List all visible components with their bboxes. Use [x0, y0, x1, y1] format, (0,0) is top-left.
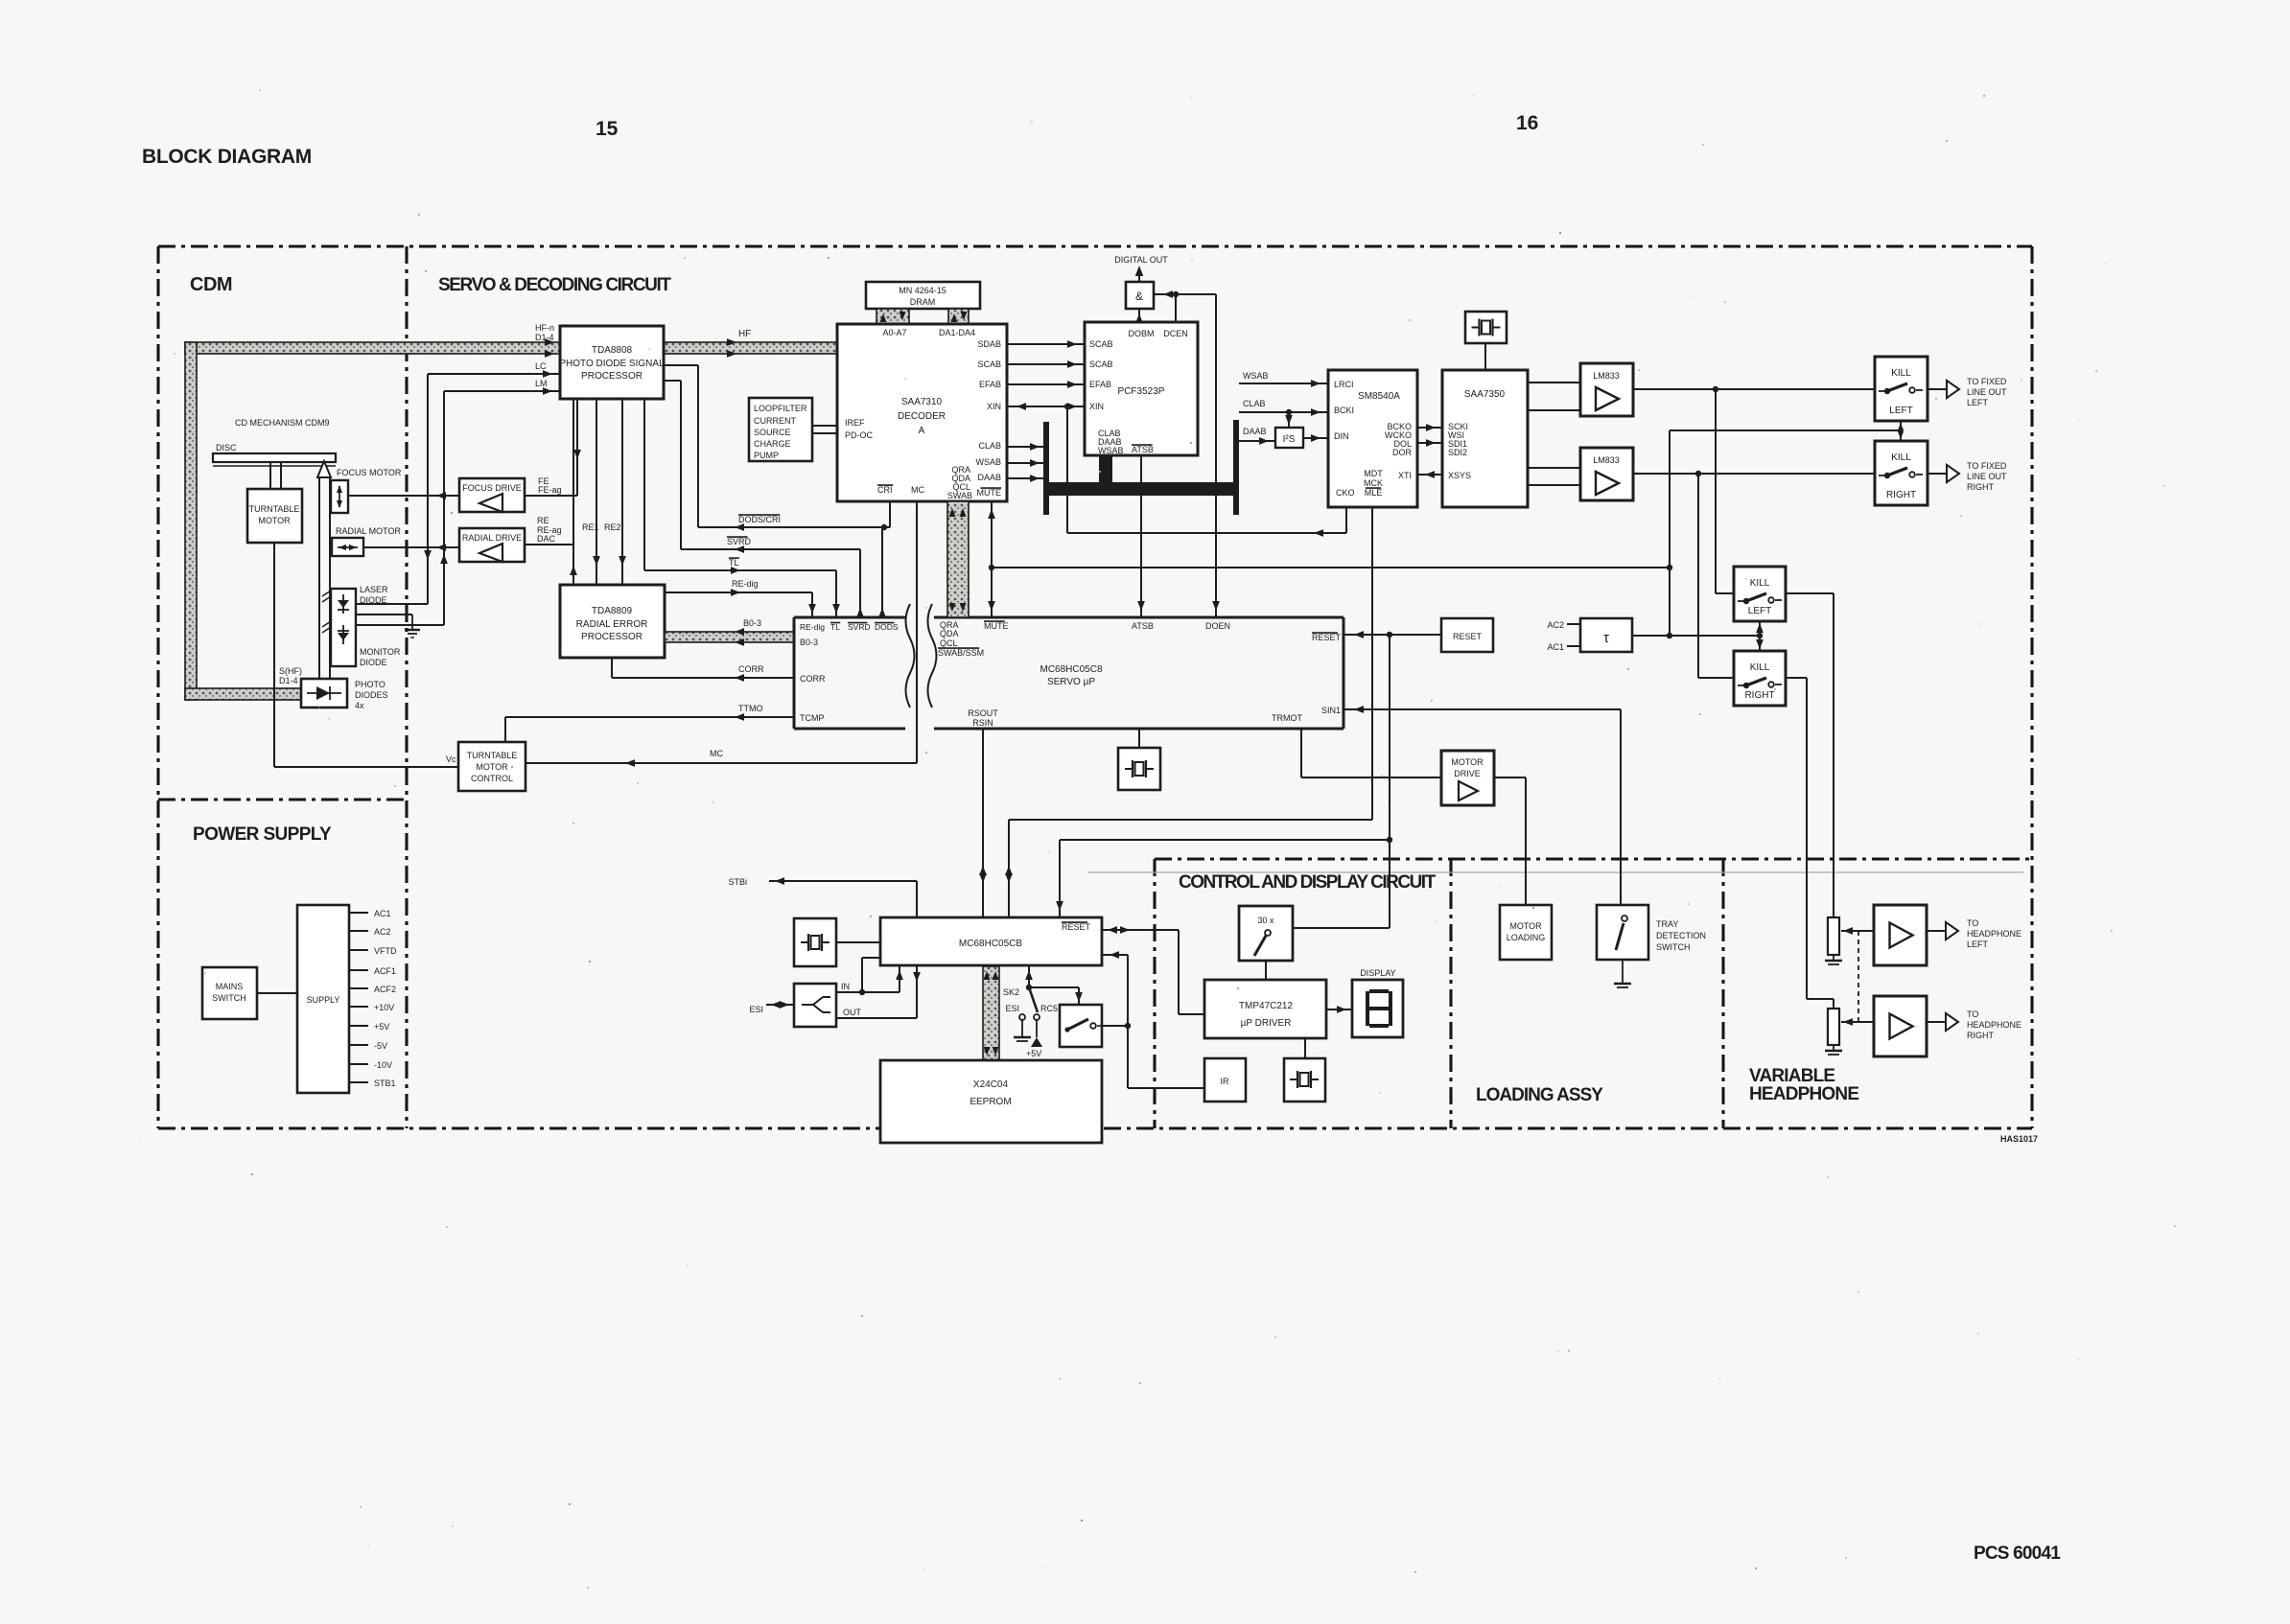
- svg-text:TL: TL: [729, 558, 739, 568]
- svg-text:DOBM: DOBM: [1129, 329, 1155, 338]
- svg-text:DETECTION: DETECTION: [1656, 931, 1706, 940]
- svg-text:µP DRIVER: µP DRIVER: [1241, 1018, 1292, 1029]
- svg-text:PROCESSOR: PROCESSOR: [581, 371, 643, 382]
- svg-text:-10V: -10V: [374, 1060, 392, 1070]
- svg-text:DODS: DODS: [875, 622, 899, 632]
- svg-text:STBi: STBi: [728, 877, 747, 887]
- svg-text:DODS/CRI: DODS/CRI: [738, 515, 781, 524]
- svg-text:TCMP: TCMP: [800, 713, 825, 723]
- svg-text:RE1: RE1: [582, 522, 599, 532]
- svg-text:LASER: LASER: [360, 585, 388, 594]
- svg-text:SERVO µP: SERVO µP: [1047, 677, 1095, 687]
- svg-text:RC5: RC5: [1040, 1004, 1058, 1013]
- svg-text:RADIAL ERROR: RADIAL ERROR: [576, 619, 648, 630]
- svg-text:SWITCH: SWITCH: [212, 993, 246, 1003]
- svg-text:LOADING ASSY: LOADING ASSY: [1476, 1085, 1603, 1105]
- svg-text:LM: LM: [535, 379, 548, 388]
- svg-text:DAAB: DAAB: [977, 473, 1001, 482]
- svg-text:HF: HF: [738, 329, 751, 339]
- svg-text:HEADPHONE: HEADPHONE: [1749, 1084, 1858, 1104]
- svg-text:RSIN: RSIN: [972, 718, 993, 728]
- svg-text:TO FIXED: TO FIXED: [1967, 461, 2007, 471]
- svg-text:POWER SUPPLY: POWER SUPPLY: [193, 824, 332, 845]
- svg-text:TL: TL: [830, 622, 840, 632]
- svg-text:TDA8809: TDA8809: [592, 606, 633, 616]
- svg-text:MOTOR: MOTOR: [1451, 757, 1484, 767]
- svg-text:DRIVE: DRIVE: [1454, 769, 1481, 778]
- svg-text:CDM: CDM: [190, 274, 232, 295]
- svg-text:+5V: +5V: [1026, 1049, 1041, 1058]
- svg-text:DECODER: DECODER: [898, 411, 946, 422]
- svg-text:MOTOR: MOTOR: [476, 762, 508, 772]
- svg-text:D1-4: D1-4: [279, 676, 298, 685]
- svg-text:SCAB: SCAB: [1089, 360, 1113, 369]
- svg-text:PCS 60041: PCS 60041: [1974, 1543, 2061, 1564]
- svg-text:I²S: I²S: [1283, 434, 1296, 445]
- svg-text:SOURCE: SOURCE: [754, 428, 791, 437]
- svg-text:SDAB: SDAB: [977, 339, 1001, 349]
- svg-text:LRCI: LRCI: [1334, 380, 1354, 389]
- svg-text:HEADPHONE: HEADPHONE: [1967, 1020, 2021, 1030]
- svg-text:CORR: CORR: [738, 664, 764, 674]
- svg-text:FOCUS MOTOR: FOCUS MOTOR: [337, 468, 402, 477]
- svg-text:FE-ag: FE-ag: [538, 485, 562, 495]
- svg-text:HAS1017: HAS1017: [2000, 1134, 2038, 1144]
- svg-text:LOADING: LOADING: [1507, 933, 1546, 942]
- svg-text:LEFT: LEFT: [1967, 940, 1989, 949]
- svg-text:RESET: RESET: [1062, 922, 1091, 932]
- svg-text:SCAB: SCAB: [977, 360, 1001, 369]
- svg-text:MC: MC: [911, 485, 924, 495]
- svg-text:RE-dig: RE-dig: [732, 579, 759, 589]
- svg-text:PCF3523P: PCF3523P: [1118, 386, 1165, 397]
- svg-text:SVRD: SVRD: [727, 537, 752, 546]
- svg-text:RIGHT: RIGHT: [1886, 490, 1916, 500]
- svg-text:XSYS: XSYS: [1448, 471, 1471, 480]
- svg-text:EFAB: EFAB: [1089, 380, 1111, 389]
- svg-text:HEADPHONE: HEADPHONE: [1967, 929, 2021, 939]
- svg-text:EFAB: EFAB: [979, 380, 1001, 389]
- svg-text:CONTROL: CONTROL: [471, 774, 513, 783]
- svg-text:SAA7350: SAA7350: [1464, 389, 1506, 400]
- svg-text:XIN: XIN: [1089, 402, 1104, 411]
- svg-text:CORR: CORR: [800, 674, 826, 684]
- svg-text:RIGHT: RIGHT: [1967, 482, 1995, 492]
- svg-text:VARIABLE: VARIABLE: [1749, 1066, 1834, 1086]
- svg-text:RE-dig: RE-dig: [800, 622, 825, 632]
- svg-text:XIN: XIN: [987, 402, 1001, 411]
- svg-text:DISPLAY: DISPLAY: [1360, 968, 1395, 978]
- svg-text:16: 16: [1516, 112, 1538, 134]
- svg-text:SIN1: SIN1: [1321, 706, 1341, 715]
- svg-text:CURRENT: CURRENT: [754, 416, 797, 426]
- svg-text:LINE OUT: LINE OUT: [1967, 387, 2007, 397]
- svg-text:DIODES: DIODES: [355, 690, 388, 700]
- svg-text:MAINS: MAINS: [216, 982, 244, 991]
- svg-text:B0-3: B0-3: [800, 638, 818, 647]
- svg-text:A0-A7: A0-A7: [882, 328, 906, 337]
- svg-text:ACF2: ACF2: [374, 985, 396, 994]
- svg-text:KILL: KILL: [1891, 368, 1911, 379]
- svg-text:MOTOR: MOTOR: [258, 516, 291, 525]
- svg-text:LM833: LM833: [1593, 371, 1620, 381]
- svg-text:TO: TO: [1967, 918, 1978, 928]
- svg-text:IREF: IREF: [845, 418, 865, 428]
- svg-text:TTMO: TTMO: [738, 704, 763, 713]
- svg-text:ACF1: ACF1: [374, 966, 396, 976]
- svg-text:ESI: ESI: [1005, 1004, 1019, 1013]
- svg-text:AC2: AC2: [374, 927, 391, 937]
- svg-text:RE2: RE2: [604, 522, 621, 532]
- svg-text:TDA8808: TDA8808: [592, 345, 633, 356]
- svg-text:PHOTO: PHOTO: [355, 680, 386, 689]
- svg-text:MC68HC05CB: MC68HC05CB: [959, 939, 1022, 949]
- svg-text:DIODE: DIODE: [360, 658, 387, 667]
- svg-text:SAA7310: SAA7310: [901, 397, 943, 407]
- svg-text:KILL: KILL: [1750, 578, 1770, 589]
- svg-text:DIGITAL OUT: DIGITAL OUT: [1114, 255, 1168, 265]
- svg-text:TO FIXED: TO FIXED: [1967, 377, 2007, 386]
- svg-text:RADIAL DRIVE: RADIAL DRIVE: [462, 533, 522, 543]
- svg-text:WSAB: WSAB: [1098, 446, 1124, 455]
- svg-text:LEFT: LEFT: [1889, 406, 1912, 416]
- svg-text:SK2: SK2: [1003, 987, 1019, 997]
- svg-text:RESET: RESET: [1453, 632, 1483, 641]
- svg-text:RIGHT: RIGHT: [1967, 1031, 1995, 1040]
- svg-text:AC2: AC2: [1547, 620, 1564, 630]
- svg-text:SM8540A: SM8540A: [1358, 391, 1400, 402]
- svg-text:WSAB: WSAB: [975, 457, 1001, 467]
- svg-text:XTI: XTI: [1398, 471, 1412, 480]
- svg-text:RSOUT: RSOUT: [968, 708, 998, 718]
- svg-text:LM833: LM833: [1593, 455, 1620, 465]
- svg-text:LINE OUT: LINE OUT: [1967, 472, 2007, 481]
- svg-text:DAAB: DAAB: [1243, 427, 1267, 436]
- svg-text:MCK: MCK: [1364, 478, 1383, 488]
- svg-text:VFTD: VFTD: [374, 946, 397, 956]
- svg-text:D1-4: D1-4: [535, 333, 554, 342]
- svg-text:RESET: RESET: [1312, 633, 1342, 642]
- svg-text:CLAB: CLAB: [1243, 399, 1266, 408]
- svg-text:PROCESSOR: PROCESSOR: [581, 632, 643, 642]
- svg-text:TRMOT: TRMOT: [1272, 713, 1302, 723]
- svg-text:Vc: Vc: [446, 754, 456, 764]
- svg-text:LEFT: LEFT: [1748, 606, 1771, 616]
- svg-text:AC1: AC1: [1547, 642, 1564, 652]
- svg-text:SVRD: SVRD: [848, 622, 871, 632]
- svg-text:+10V: +10V: [374, 1003, 394, 1012]
- svg-text:DAC: DAC: [537, 534, 556, 544]
- svg-text:DIN: DIN: [1334, 431, 1349, 441]
- svg-text:ATSB: ATSB: [1132, 621, 1154, 631]
- svg-text:DOR: DOR: [1392, 448, 1413, 457]
- svg-text:BLOCK DIAGRAM: BLOCK DIAGRAM: [142, 146, 312, 168]
- svg-text:MOTOR: MOTOR: [1509, 921, 1542, 931]
- svg-text:TURNTABLE: TURNTABLE: [249, 504, 300, 514]
- svg-text:BCKI: BCKI: [1334, 406, 1354, 415]
- svg-text:ESI: ESI: [749, 1005, 763, 1014]
- svg-text:TRAY: TRAY: [1656, 919, 1678, 929]
- svg-text:PD-OC: PD-OC: [845, 430, 874, 440]
- svg-text:MDT: MDT: [1364, 469, 1383, 478]
- svg-text:DRAM: DRAM: [910, 297, 936, 307]
- svg-text:CHARGE: CHARGE: [754, 439, 791, 449]
- svg-text:LOOPFILTER: LOOPFILTER: [754, 404, 807, 413]
- svg-text:&: &: [1135, 290, 1143, 303]
- svg-text:OUT: OUT: [843, 1008, 862, 1017]
- svg-text:TURNTABLE: TURNTABLE: [467, 751, 518, 760]
- svg-text:TMP47C212: TMP47C212: [1239, 1001, 1294, 1011]
- svg-text:SWITCH: SWITCH: [1656, 942, 1691, 952]
- svg-text:STB1: STB1: [374, 1079, 396, 1088]
- svg-text:SCAB: SCAB: [1089, 339, 1113, 349]
- svg-text:KILL: KILL: [1750, 662, 1770, 673]
- svg-text:MN 4264-15: MN 4264-15: [899, 286, 946, 295]
- svg-text:15: 15: [596, 118, 619, 140]
- svg-text:-5V: -5V: [374, 1041, 387, 1051]
- svg-text:SUPPLY: SUPPLY: [307, 995, 340, 1005]
- svg-text:IR: IR: [1221, 1077, 1230, 1086]
- svg-text:ATSB: ATSB: [1132, 445, 1154, 454]
- svg-text:RE: RE: [537, 516, 549, 525]
- svg-text:DOEN: DOEN: [1205, 621, 1230, 631]
- svg-text:MUTE: MUTE: [984, 621, 1009, 631]
- svg-text:CONTROL AND DISPLAY CIRCUIT: CONTROL AND DISPLAY CIRCUIT: [1179, 872, 1437, 893]
- svg-text:30 x: 30 x: [1257, 916, 1274, 925]
- svg-text:B0-3: B0-3: [743, 618, 761, 628]
- svg-text:DISC: DISC: [216, 443, 237, 452]
- svg-text:X24C04: X24C04: [973, 1079, 1009, 1090]
- svg-text:LC: LC: [535, 361, 547, 371]
- svg-text:RADIAL MOTOR: RADIAL MOTOR: [336, 526, 402, 536]
- svg-text:SWAB: SWAB: [947, 491, 972, 500]
- svg-text:QCL: QCL: [940, 638, 958, 648]
- svg-text:SERVO & DECODING CIRCUIT: SERVO & DECODING CIRCUIT: [438, 275, 671, 295]
- svg-text:LEFT: LEFT: [1967, 398, 1989, 407]
- svg-text:DCEN: DCEN: [1163, 329, 1188, 338]
- svg-text:CLAB: CLAB: [978, 441, 1001, 451]
- svg-text:FOCUS DRIVE: FOCUS DRIVE: [462, 483, 522, 493]
- svg-text:PUMP: PUMP: [754, 451, 779, 460]
- svg-text:TO: TO: [1967, 1009, 1978, 1019]
- svg-text:AC1: AC1: [374, 909, 391, 918]
- svg-text:PHOTO DIODE SIGNAL: PHOTO DIODE SIGNAL: [559, 359, 665, 369]
- svg-text:CRI: CRI: [877, 485, 893, 495]
- svg-text:SWAB/SSM: SWAB/SSM: [938, 648, 984, 658]
- svg-text:HF-n: HF-n: [535, 323, 554, 333]
- svg-text:S(HF): S(HF): [279, 666, 302, 676]
- svg-text:WSAB: WSAB: [1243, 371, 1269, 381]
- svg-text:MC: MC: [710, 749, 723, 758]
- svg-text:MLE: MLE: [1365, 488, 1383, 498]
- svg-text:τ: τ: [1603, 630, 1609, 646]
- svg-text:DA1-DA4: DA1-DA4: [939, 328, 975, 337]
- svg-text:IN: IN: [841, 982, 850, 991]
- svg-text:+5V: +5V: [374, 1022, 389, 1032]
- svg-text:QDA: QDA: [940, 629, 959, 638]
- svg-text:RIGHT: RIGHT: [1744, 690, 1774, 701]
- svg-text:CD MECHANISM CDM9: CD MECHANISM CDM9: [235, 418, 330, 428]
- svg-text:A: A: [919, 426, 925, 436]
- svg-text:MONITOR: MONITOR: [360, 647, 401, 657]
- svg-text:CKO: CKO: [1336, 488, 1355, 498]
- svg-text:4x: 4x: [355, 701, 364, 710]
- svg-text:KILL: KILL: [1891, 452, 1911, 463]
- svg-text:MUTE: MUTE: [977, 488, 1002, 498]
- svg-text:EEPROM: EEPROM: [970, 1097, 1011, 1107]
- svg-text:SDI2: SDI2: [1448, 448, 1467, 457]
- svg-text:MC68HC05C8: MC68HC05C8: [1040, 664, 1102, 675]
